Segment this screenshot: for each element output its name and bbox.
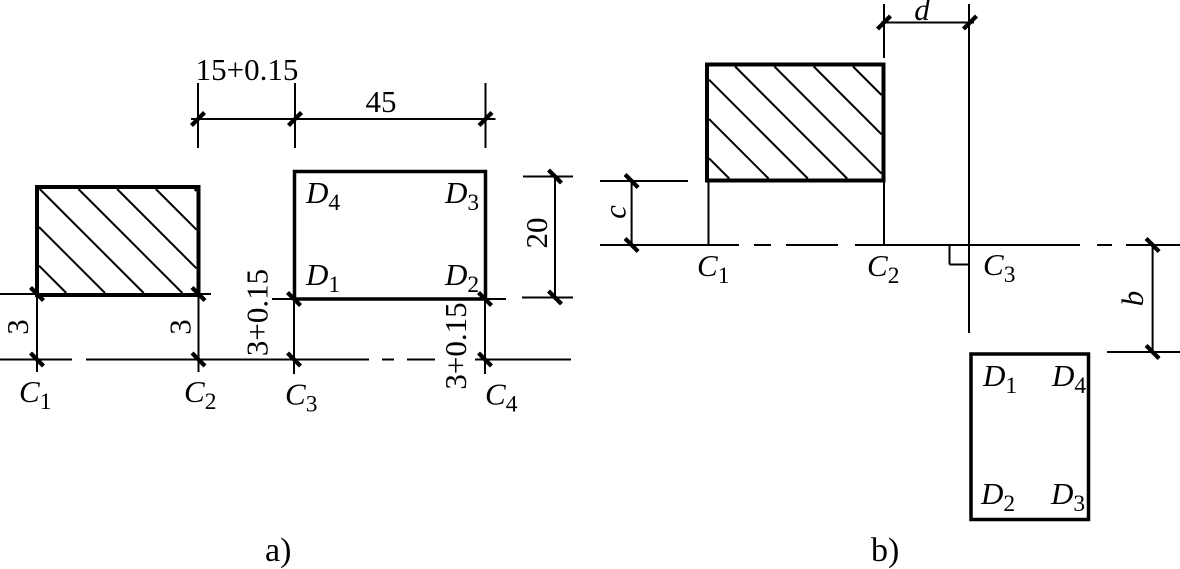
svg-text:45: 45: [366, 84, 397, 119]
svg-text:d: d: [914, 0, 930, 27]
right-angle symbol at C3: [950, 245, 970, 265]
svg-text:3+0.15: 3+0.15: [438, 302, 473, 389]
dimension c: [600, 175, 688, 252]
hatched rectangle a: [37, 187, 199, 295]
svg-text:C3: C3: [285, 377, 317, 418]
svg-text:3: 3: [163, 319, 198, 335]
svg-text:D1: D1: [982, 358, 1017, 399]
svg-text:D3: D3: [1050, 476, 1085, 517]
svg-text:a): a): [265, 532, 291, 569]
svg-text:15+0.15: 15+0.15: [196, 52, 299, 87]
svg-text:C1: C1: [697, 248, 729, 289]
svg-text:C2: C2: [184, 374, 216, 415]
svg-text:b: b: [1115, 291, 1150, 307]
svg-text:3+0.15: 3+0.15: [240, 269, 275, 356]
centerline a (dash-dot axis): [0, 359, 571, 361]
hatched rectangle b: [707, 65, 884, 181]
dimension 20: [522, 170, 573, 304]
svg-text:b): b): [871, 532, 899, 569]
svg-text:3: 3: [0, 319, 35, 335]
dimension d: [878, 4, 977, 58]
svg-text:C3: C3: [983, 247, 1015, 288]
dimension b: [1107, 239, 1180, 359]
rectangle D1 D2 D3 D4 (b): [971, 354, 1089, 520]
centerline b (dash-dot axis): [600, 244, 1180, 246]
svg-text:D4: D4: [1051, 358, 1086, 399]
svg-text:C4: C4: [485, 377, 518, 418]
leg C1 (b): [708, 181, 710, 246]
extension line bottom of rect D (a): [272, 298, 293, 300]
dimension 15+0.15: [191, 83, 303, 148]
svg-text:D2: D2: [980, 476, 1015, 517]
svg-text:D4: D4: [305, 175, 340, 216]
svg-text:D2: D2: [444, 257, 479, 298]
svg-text:D3: D3: [444, 175, 479, 216]
dimension 45: [295, 83, 496, 148]
dimension 3 at C1: [31, 288, 44, 373]
svg-text:D1: D1: [305, 257, 340, 298]
svg-text:c: c: [598, 205, 633, 219]
svg-text:20: 20: [519, 218, 554, 249]
svg-text:C1: C1: [19, 374, 51, 415]
extension line bottom of hatched rect a: [0, 293, 35, 295]
axis line C3 (b): [968, 4, 970, 333]
rectangle D1 D2 D3 D4 (a): [295, 172, 486, 300]
svg-text:C2: C2: [867, 248, 899, 289]
dimension 3+0.15 at C3: [288, 293, 301, 375]
dimension 3 at C2: [192, 288, 205, 373]
dimension 3+0.15 at C4: [479, 293, 492, 375]
leg C2 (b): [883, 181, 885, 246]
